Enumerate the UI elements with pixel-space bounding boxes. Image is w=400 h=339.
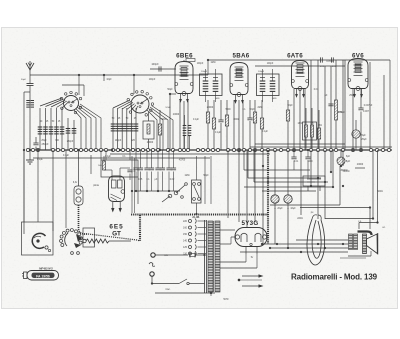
loudspeaker bbox=[363, 233, 378, 255]
svg-text:8μF: 8μF bbox=[346, 159, 351, 163]
cathode capacitor C22 bbox=[352, 120, 366, 150]
svg-text:140pF: 140pF bbox=[115, 140, 122, 142]
band switch S1b bbox=[127, 90, 154, 116]
svg-text:20μF: 20μF bbox=[277, 208, 283, 210]
coupling caps mid bbox=[291, 150, 310, 178]
svg-text:20000: 20000 bbox=[357, 164, 364, 166]
svg-text:0.1μF: 0.1μF bbox=[63, 155, 70, 157]
wire 6E5 top bbox=[91, 150, 108, 174]
svg-text:0.05: 0.05 bbox=[138, 179, 143, 181]
screen resistor bank D bbox=[206, 100, 228, 150]
svg-text:50pF: 50pF bbox=[21, 79, 27, 81]
coupling capacitor row bbox=[133, 150, 180, 191]
svg-text:6V6: 6V6 bbox=[352, 53, 364, 60]
svg-text:1MΩ: 1MΩ bbox=[211, 62, 216, 64]
svg-text:20000: 20000 bbox=[207, 107, 214, 109]
coupling capacitor C21 bbox=[353, 89, 370, 150]
svg-text:6E5: 6E5 bbox=[109, 224, 123, 231]
svg-text:0.01: 0.01 bbox=[314, 89, 319, 91]
diode load bank E bbox=[286, 100, 320, 150]
svg-text:2MΩ: 2MΩ bbox=[258, 107, 263, 109]
junction power bbox=[238, 262, 262, 281]
title Radiomarelli Mod 139 bbox=[291, 273, 378, 282]
wire fan oscillator switch a bbox=[40, 98, 68, 108]
wire power drops bbox=[228, 150, 263, 244]
wire speaker feed bbox=[300, 208, 370, 230]
wire 6E5 arrows bbox=[112, 202, 122, 212]
wire speaker rails bbox=[240, 240, 348, 252]
svg-text:ALIM.: ALIM. bbox=[192, 215, 200, 219]
tube V6 5Y3G bbox=[235, 220, 267, 254]
wire HT secondary bbox=[220, 230, 257, 280]
svg-text:140: 140 bbox=[183, 240, 188, 243]
svg-text:a.t.: a.t. bbox=[382, 226, 386, 229]
svg-text:FA 19/56: FA 19/56 bbox=[36, 274, 50, 278]
svg-text:0.007μF: 0.007μF bbox=[364, 105, 373, 107]
svg-text:1MΩ: 1MΩ bbox=[272, 98, 277, 100]
svg-text:+: + bbox=[287, 206, 289, 210]
wire 6BE6 pins bbox=[170, 94, 188, 150]
wire mid-right drops bbox=[301, 150, 343, 219]
svg-text:125: 125 bbox=[183, 246, 188, 249]
shielded lead braid bbox=[79, 205, 89, 234]
mains transformer T3 bbox=[205, 220, 221, 293]
svg-text:5000: 5000 bbox=[161, 119, 167, 121]
value labels bbox=[37, 61, 386, 301]
wire feedback h1 bbox=[244, 150, 310, 170]
trimmer bank A bbox=[38, 108, 65, 150]
wire right bottom h bbox=[340, 251, 371, 258]
terminal pair bbox=[71, 252, 80, 255]
band switch S1a bbox=[60, 91, 82, 114]
svg-text:3000Ω: 3000Ω bbox=[343, 171, 350, 173]
svg-text:500Ω: 500Ω bbox=[377, 191, 383, 193]
wire feedback h2 bbox=[248, 150, 321, 178]
wire feedback h3 bbox=[254, 150, 328, 182]
wire 6AT6 pins bbox=[294, 89, 305, 150]
svg-text:25μF: 25μF bbox=[361, 139, 367, 141]
svg-text:6AT6: 6AT6 bbox=[287, 53, 303, 60]
svg-text:250Ω: 250Ω bbox=[349, 95, 355, 97]
svg-text:0.1μF: 0.1μF bbox=[37, 159, 44, 161]
output transformer T4 bbox=[349, 234, 358, 250]
magic eye box bbox=[22, 150, 54, 255]
detector box bbox=[101, 150, 138, 204]
bypass capacitor C1 bbox=[33, 137, 49, 150]
bus line 4 bbox=[250, 144, 392, 147]
wire fan oscillator switch b bbox=[113, 100, 138, 111]
svg-text:43700: 43700 bbox=[179, 160, 186, 162]
svg-text:+: + bbox=[274, 206, 276, 210]
svg-text:470kΩ: 470kΩ bbox=[338, 112, 345, 114]
svg-text:16μF: 16μF bbox=[290, 208, 296, 210]
wire top grid line bbox=[150, 62, 176, 72]
svg-text:0.1μF: 0.1μF bbox=[215, 132, 222, 134]
svg-text:20000: 20000 bbox=[147, 142, 154, 144]
wire B+ verticals bbox=[311, 57, 343, 150]
wire output h6 bbox=[270, 166, 390, 205]
svg-text:0.007: 0.007 bbox=[363, 110, 370, 113]
tube V5 6E5 bbox=[109, 176, 125, 238]
svg-text:0.05μF: 0.05μF bbox=[326, 61, 334, 63]
svg-text:250pF: 250pF bbox=[41, 143, 49, 146]
cathode resistor R5 bbox=[158, 110, 161, 150]
voltage selector bbox=[183, 215, 206, 256]
svg-text:c.s.: c.s. bbox=[358, 221, 362, 223]
magic eye target bbox=[32, 233, 50, 251]
svg-text:MΩ: MΩ bbox=[318, 125, 322, 127]
svg-text:100pF: 100pF bbox=[149, 79, 156, 81]
svg-text:inter.: inter. bbox=[166, 288, 171, 291]
phono jack bbox=[303, 176, 325, 191]
field coil loop bbox=[307, 215, 325, 265]
wire braid drops bbox=[132, 156, 135, 213]
shield braid bus bbox=[88, 151, 268, 244]
bus line 2 bbox=[110, 153, 270, 155]
tone label bbox=[179, 160, 186, 162]
wire 5BA6 pins bbox=[234, 100, 243, 150]
wire fan switch a right bbox=[74, 104, 101, 150]
ground G1 bbox=[26, 150, 34, 164]
wire top AVC rail bbox=[30, 75, 208, 95]
svg-text:100pF: 100pF bbox=[267, 63, 274, 65]
svg-text:Radiomarelli - Mod. 139: Radiomarelli - Mod. 139 bbox=[291, 273, 378, 282]
wire eye vertical bbox=[23, 150, 25, 234]
nameplate MF452 bbox=[22, 267, 59, 281]
tube V2 5BA6 bbox=[230, 53, 250, 104]
mains plug upper bbox=[151, 253, 205, 258]
tube socket switch bbox=[60, 228, 131, 248]
trimmer bank B bbox=[111, 108, 139, 150]
band switch S3 bbox=[192, 156, 212, 214]
antenna coil trimmers bbox=[26, 101, 34, 108]
svg-text:5000: 5000 bbox=[307, 161, 313, 163]
svg-text:1MΩ: 1MΩ bbox=[298, 123, 303, 125]
svg-text:1MΩ: 1MΩ bbox=[185, 175, 190, 177]
pickup arrow 1 bbox=[242, 275, 263, 278]
svg-text:50pF: 50pF bbox=[287, 105, 293, 107]
svg-text:100pF: 100pF bbox=[151, 62, 159, 66]
svg-text:220Ω: 220Ω bbox=[297, 218, 303, 220]
svg-text:8μF: 8μF bbox=[346, 156, 351, 158]
svg-text:5Y3G: 5Y3G bbox=[241, 220, 258, 227]
antenna bbox=[21, 61, 34, 150]
tube V1 6BE6 bbox=[175, 53, 195, 103]
AVC resistor bank bbox=[247, 100, 263, 150]
mains plug lower bbox=[149, 263, 205, 285]
svg-text:220: 220 bbox=[183, 220, 188, 223]
pickup arrow 2 bbox=[242, 285, 263, 288]
svg-text:0.1μF: 0.1μF bbox=[193, 119, 200, 121]
wire top right rail bbox=[208, 60, 390, 150]
svg-text:1MΩ: 1MΩ bbox=[215, 98, 220, 100]
wire right rail 2 bbox=[345, 60, 370, 150]
svg-text:52kΩ: 52kΩ bbox=[165, 107, 171, 109]
HT label tick bbox=[355, 164, 365, 168]
dial lamp holder bbox=[74, 150, 83, 205]
filter capacitor 8uF bbox=[337, 150, 351, 172]
wire under transformer bbox=[155, 292, 215, 296]
svg-text:160: 160 bbox=[183, 227, 188, 230]
svg-text:5000: 5000 bbox=[225, 109, 231, 111]
svg-text:GT: GT bbox=[112, 231, 121, 238]
IF transformer T1 bbox=[200, 69, 223, 102]
svg-text:25pF: 25pF bbox=[41, 140, 47, 142]
svg-text:10pF: 10pF bbox=[106, 79, 112, 81]
wire feedback h5 bbox=[262, 150, 316, 191]
oscillator coil box bbox=[143, 112, 154, 150]
wire left edge vertical bbox=[24, 92, 30, 150]
svg-text:260pF: 260pF bbox=[67, 141, 74, 143]
wire coil tie bbox=[62, 85, 84, 96]
svg-text:20000: 20000 bbox=[173, 114, 180, 116]
wire fan switch b right bbox=[147, 106, 173, 151]
svg-text:300Ω: 300Ω bbox=[233, 119, 239, 121]
grid resistor 470k bbox=[335, 60, 343, 150]
chassis bus bbox=[27, 149, 392, 151]
tube V3 6AT6 bbox=[287, 53, 309, 98]
wire socket vertical bbox=[53, 150, 66, 231]
svg-text:100pF: 100pF bbox=[197, 63, 204, 65]
svg-text:0.1μF: 0.1μF bbox=[105, 156, 112, 158]
svg-text:150: 150 bbox=[183, 233, 188, 236]
speaker horn lead bbox=[358, 232, 372, 236]
bus line 3 bbox=[33, 157, 210, 159]
svg-text:25μF: 25μF bbox=[360, 134, 366, 137]
padder capacitors A bbox=[66, 118, 77, 150]
tone switch S2 bbox=[162, 183, 187, 202]
bus junctions bbox=[26, 148, 390, 151]
electrolytic C31 bbox=[284, 150, 292, 248]
svg-text:pilota: pilota bbox=[93, 184, 99, 187]
svg-text:50pF: 50pF bbox=[203, 175, 209, 177]
svg-text:5BA6: 5BA6 bbox=[232, 53, 249, 60]
IF transformer T2 bbox=[257, 69, 280, 102]
svg-text:0.02: 0.02 bbox=[170, 179, 175, 181]
svg-text:MF452 Nº2: MF452 Nº2 bbox=[39, 267, 53, 271]
tube V4 6V6 bbox=[348, 53, 368, 98]
svg-text:100pF: 100pF bbox=[258, 71, 265, 73]
oscillator coil L3 bbox=[165, 107, 191, 150]
grid resistor 6E5 bbox=[98, 156, 137, 180]
svg-text:50pF: 50pF bbox=[249, 109, 255, 111]
svg-text:100pF: 100pF bbox=[201, 71, 208, 73]
svg-text:0.01: 0.01 bbox=[294, 161, 299, 163]
svg-text:0.1μF: 0.1μF bbox=[262, 131, 269, 133]
wire right verticals low bbox=[325, 150, 378, 229]
wire 6V6 right bbox=[345, 66, 384, 150]
wire feedback h4 bbox=[244, 150, 333, 187]
svg-text:50pF: 50pF bbox=[167, 89, 173, 91]
svg-text:50Hz: 50Hz bbox=[223, 299, 229, 301]
electrolytic C30 bbox=[271, 150, 279, 244]
